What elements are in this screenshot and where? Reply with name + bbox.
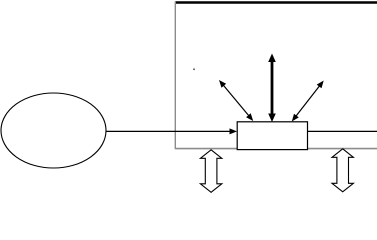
left diagonal arrowhead upper bbox=[219, 80, 226, 88]
frame top edge bbox=[175, 1, 377, 4]
hollow up-down arrow right bbox=[332, 149, 353, 192]
wire ellipse to box bbox=[106, 130, 230, 132]
ellipse bbox=[1, 93, 106, 168]
right diagonal arrowhead upper bbox=[317, 81, 324, 89]
frame bottom edge bbox=[175, 148, 377, 150]
stray dot bbox=[193, 69, 195, 71]
box bbox=[237, 122, 307, 150]
thick vertical arrowhead bottom bbox=[268, 114, 276, 123]
left diagonal double arrow shaft bbox=[222, 83, 251, 118]
wire box to right edge bbox=[308, 130, 377, 132]
right diagonal double arrow shaft bbox=[294, 84, 321, 119]
left diagonal arrowhead lower bbox=[246, 113, 253, 121]
frame left edge bbox=[174, 2, 176, 150]
right diagonal arrowhead lower bbox=[292, 114, 299, 122]
thick vertical double arrow shaft bbox=[271, 59, 274, 117]
arrowhead into box left bbox=[230, 128, 238, 134]
hollow up-down arrow left bbox=[200, 150, 221, 193]
thick vertical arrowhead top bbox=[268, 54, 276, 63]
